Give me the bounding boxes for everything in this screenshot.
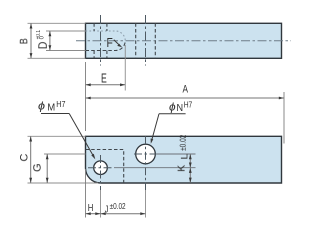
leader phiN [159,113,186,115]
dim B extension lines [28,22,86,24]
label phiM H7 with leader [38,100,66,114]
svg-text:H7: H7 [56,100,66,109]
dim H line [86,213,101,215]
svg-text:±0.02: ±0.02 [178,134,188,150]
svg-text:ϕ: ϕ [169,102,176,114]
svg-text:E: E [101,72,107,86]
svg-text:±0.02: ±0.02 [110,202,126,211]
dim K/L line [189,154,191,183]
hidden line: big hole silhouette left [135,23,137,58]
leader phiM [41,113,69,115]
extension: small hole center to K/L dim [114,167,196,169]
label phiN H7 with leader [169,101,193,114]
small hole [94,161,108,175]
dim D line [49,31,51,51]
hidden line: big hole silhouette right [154,23,156,58]
centerline: top view big hole axis [145,15,147,66]
extension: big hole center to K/L dim [156,153,196,155]
svg-text:J: J [105,203,109,215]
hidden line: slot top (light dotted) [86,31,126,41]
dim B line [30,23,32,58]
centerline: top view horizontal axis [76,40,291,42]
svg-text:A: A [183,84,189,96]
hidden line: small hole silhouette right [106,23,108,58]
top view body [86,23,282,58]
dim D extension lines [46,30,86,32]
dim E line [86,84,126,86]
dim G line [46,154,48,183]
centerline: top view small hole axis [100,15,102,66]
svg-text:K: K [175,165,187,172]
front view body [86,136,282,183]
centerline: small hole cross [88,167,114,169]
dim A line [86,97,285,99]
dim E extension line right [124,45,126,91]
svg-text:B: B [19,38,31,44]
extension lines below front view [85,169,87,218]
centerline: big hole cross [134,153,163,155]
extension: big hole center to G dim [44,153,86,155]
svg-text:N: N [177,103,184,114]
dim J line [101,213,146,215]
dim C extension lines [28,135,86,137]
svg-text:H7: H7 [184,101,193,110]
hidden line: slot bottom (dark dashed) [86,41,126,51]
svg-text:ϕ: ϕ [38,101,45,113]
svg-text:M: M [47,103,55,114]
svg-text:L: L [179,154,189,160]
svg-text:F: F [107,36,114,50]
dim C line [30,136,32,183]
svg-text:G: G [32,163,44,172]
hidden line: small hole silhouette left [93,23,95,58]
dim A extension right [283,92,285,144]
big hole [136,144,156,164]
dim E extension line left [85,62,87,131]
svg-text:D: D [38,42,50,50]
svg-text:C: C [19,154,31,162]
front view hidden slot lines [86,150,124,184]
svg-text:H: H [88,202,94,214]
